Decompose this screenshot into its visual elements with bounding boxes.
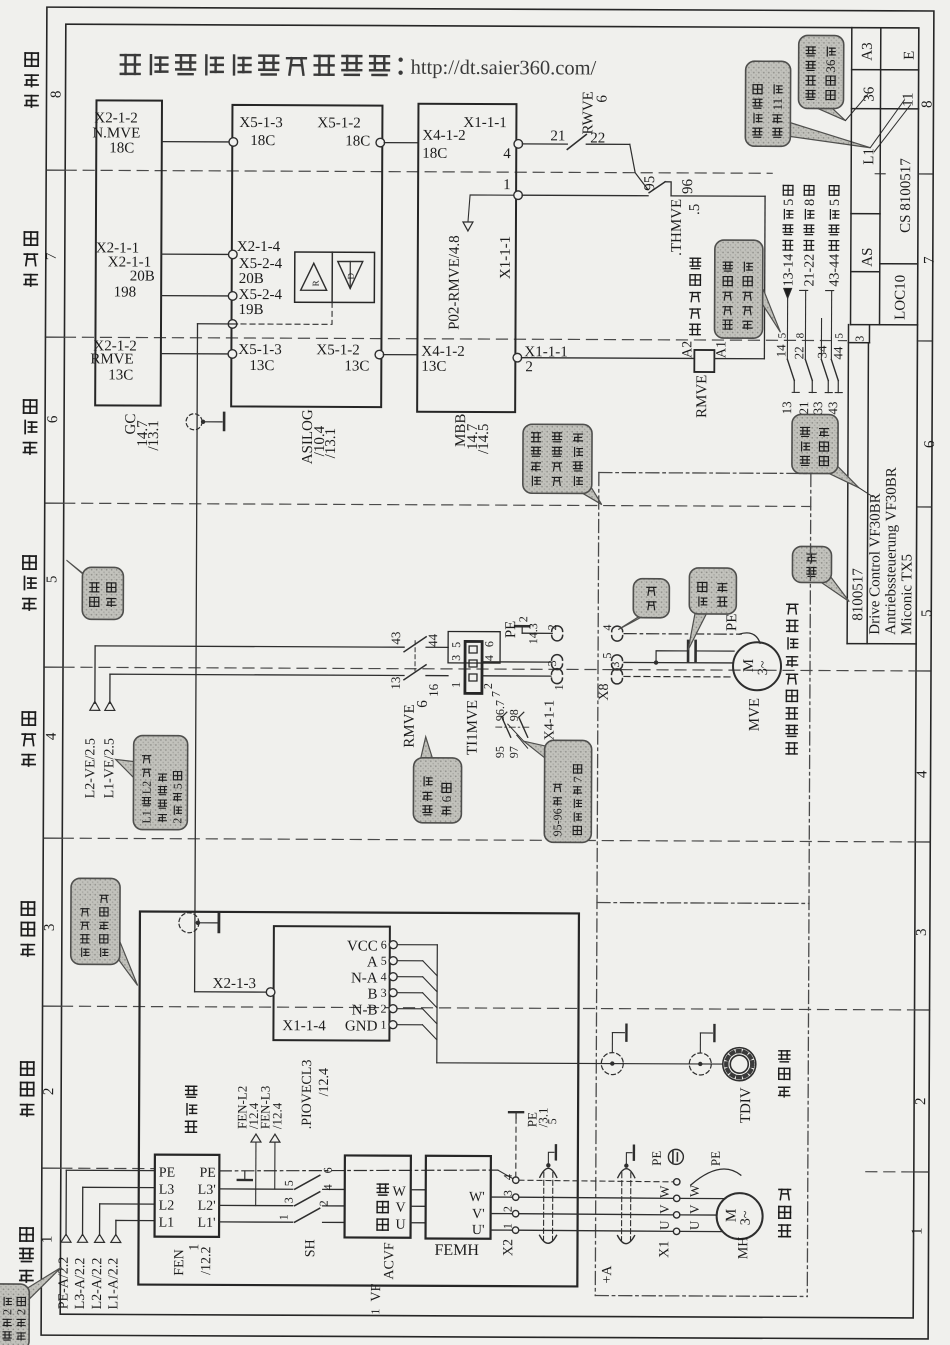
- svg-text:PE: PE: [503, 621, 519, 639]
- FEMH pin labels W' V' U': [469, 1190, 485, 1238]
- callout bubble 95-96常闭触点在第7区: [524, 741, 547, 759]
- MBB block reference label MBB 14.7 /14.5: [453, 414, 492, 455]
- ASILOG left pin circles: [228, 138, 238, 359]
- wire X2-1-1/X2-1-4: [161, 253, 228, 255]
- svg-text:LOC10: LOC10: [893, 275, 909, 320]
- svg-text:13C: 13C: [421, 359, 446, 375]
- shield clamp on encoder wire 1: [601, 1025, 626, 1075]
- control cabinet outline box: [138, 912, 579, 1287]
- svg-text:Drive Control VF30BR: Drive Control VF30BR: [867, 493, 884, 634]
- svg-text:X2-1-3: X2-1-3: [213, 976, 256, 992]
- svg-text:95: 95: [493, 746, 507, 758]
- leader lines to THMVE contacts: [508, 724, 528, 748]
- tap wire FEN-L3/12.4 with triangle: [257, 1086, 284, 1189]
- svg-text:6: 6: [381, 938, 387, 952]
- svg-text:21: 21: [550, 128, 565, 144]
- svg-text:13C: 13C: [344, 358, 369, 374]
- PIOVECL3 right pin circles and encoder bus wires: [389, 941, 438, 1063]
- label column 13-14位置在5区 with arrow: [781, 185, 797, 359]
- svg-text:4: 4: [501, 1174, 515, 1180]
- svg-text:X1-1-1: X1-1-1: [498, 236, 514, 279]
- ASILOG pin labels X5-1-3 18C X5-1-2 18C: [239, 115, 370, 150]
- svg-text:A1: A1: [714, 341, 729, 358]
- svg-text:5: 5: [833, 333, 845, 339]
- block GC (group control): [95, 100, 162, 405]
- callout bubble 点划线框内部件是在一起的: [578, 483, 602, 504]
- svg-text:1: 1: [368, 1309, 382, 1315]
- svg-text:6: 6: [45, 415, 61, 423]
- ACVF block reference label VF ACVF 1: [368, 1242, 397, 1315]
- svg-text:98: 98: [507, 709, 521, 721]
- callout bubble 启动电容: [688, 612, 706, 650]
- svg-text:2: 2: [481, 683, 495, 689]
- svg-text:2: 2: [516, 616, 530, 622]
- coil RMVE fan contactor A2-A1: [680, 341, 729, 418]
- wires FEMH to connector X2: [491, 1197, 513, 1230]
- wire 13C ASILOG to MBB: [383, 354, 417, 356]
- svg-text:L2': L2': [198, 1199, 216, 1214]
- label 电动机 motor: [779, 1224, 791, 1226]
- svg-text:RMVE: RMVE: [90, 351, 133, 367]
- svg-text:43: 43: [388, 632, 403, 645]
- svg-text:34: 34: [814, 345, 829, 359]
- GC pin net labels X2-1-1 X2-1-1 20B 198: [96, 240, 155, 300]
- svg-text:L1: L1: [159, 1216, 175, 1231]
- svg-text:M: M: [741, 659, 757, 672]
- block FEMH output filter: [426, 1156, 491, 1239]
- svg-text:21-22: 21-22: [802, 254, 817, 287]
- label column 21-22位置在8区: [799, 186, 818, 360]
- callout bubble 风机接触器的四对触点: [758, 290, 780, 332]
- label 编码器 encoder: [779, 1086, 790, 1088]
- wire THMVE 96 to corner and down to coil: [670, 196, 765, 359]
- svg-text:X5-1-2: X5-1-2: [316, 342, 359, 358]
- svg-text:19B: 19B: [239, 302, 264, 318]
- svg-text:U: U: [657, 1220, 672, 1230]
- motor MVE fan (M 3~): [733, 642, 781, 731]
- block ASILOG: [231, 105, 382, 407]
- svg-text:5: 5: [545, 1118, 559, 1124]
- svg-text:43-44: 43-44: [827, 254, 842, 287]
- svg-text:/14.5: /14.5: [476, 424, 492, 454]
- svg-text:X4-1-2: X4-1-2: [421, 344, 464, 360]
- plug contacts X8 (three pairs of arcs): [611, 626, 622, 684]
- svg-text:3: 3: [852, 336, 866, 342]
- connector X2 pin circles 4 3 2 1: [500, 1174, 519, 1256]
- block MBB (machine room board): [417, 104, 516, 412]
- svg-text:96: 96: [680, 178, 696, 194]
- wire 18C ASILOG to MBB: [384, 142, 418, 144]
- PE stub with ground at plug row: [503, 616, 552, 644]
- svg-text:X5-2-4: X5-2-4: [239, 256, 283, 272]
- svg-text:21: 21: [796, 401, 811, 414]
- label 曳引电动机冷却风机: [786, 742, 797, 744]
- PE dash-dot wire from FEN with ground: [219, 1169, 514, 1181]
- svg-text:1: 1: [380, 1018, 386, 1032]
- contacts THMVE 95-96 97-98 spare: [493, 700, 532, 758]
- svg-text:+A: +A: [600, 1265, 615, 1284]
- svg-text:4: 4: [915, 770, 931, 778]
- PIOVECL3 left pin circle X2-1-3: [266, 988, 275, 997]
- svg-text:5: 5: [600, 653, 614, 659]
- svg-text:N.MVE: N.MVE: [92, 125, 140, 141]
- gang dash between RMVE contacts: [414, 641, 416, 671]
- svg-text:14: 14: [773, 344, 788, 358]
- svg-text:L1-A/2.2: L1-A/2.2: [106, 1258, 121, 1310]
- svg-text:A: A: [367, 955, 378, 971]
- svg-text:6: 6: [415, 700, 431, 708]
- contact RMVE 13-16 in fan line: [388, 665, 448, 697]
- svg-text:7: 7: [44, 252, 60, 260]
- callout bubble 到第2页的第2区: [24, 1267, 61, 1298]
- svg-text:5: 5: [449, 642, 463, 648]
- PIOVECL3 pin numbers 6..1: [380, 938, 386, 1032]
- svg-text:8: 8: [48, 91, 64, 99]
- FEN pin labels PE L3 L2 L1 / PE L3' L2' L1': [159, 1166, 216, 1231]
- PIOVECL3 pin labels VCC A N-A B N-B GND X1-1-4: [282, 938, 378, 1034]
- svg-text:X2-1-2: X2-1-2: [94, 110, 137, 126]
- svg-text:SH: SH: [303, 1239, 318, 1257]
- contact RWVE 21-22 (normally open): [550, 91, 610, 150]
- svg-text:/13.1: /13.1: [323, 428, 339, 458]
- machine area dash-dot frame +A: [595, 473, 811, 1297]
- wires ACVF to FEMH: [411, 1190, 426, 1223]
- contactor RMVE auxiliary contact 13-14: [773, 332, 799, 414]
- svg-text:V: V: [687, 1204, 702, 1214]
- svg-text:X1: X1: [657, 1241, 672, 1258]
- svg-text:1: 1: [910, 1227, 926, 1235]
- svg-text:36: 36: [823, 59, 838, 73]
- svg-text:V: V: [396, 1201, 406, 1216]
- tap wire FEN-L2/12.4 with triangle: [234, 1086, 261, 1206]
- FEN block reference label FEN 1 /12.2: [172, 1244, 214, 1276]
- svg-text:W': W': [469, 1190, 485, 1205]
- svg-text:198: 198: [114, 284, 137, 300]
- svg-text:L1-VE/2.5: L1-VE/2.5: [102, 738, 117, 798]
- ACVF pin labels W V U: [392, 1185, 406, 1233]
- wire 18C GC to ASILOG: [162, 141, 229, 143]
- svg-text:3: 3: [282, 1197, 296, 1203]
- title block drawing number and name 8100517 Drive Control VF30BR: [847, 343, 917, 644]
- svg-text:/12.4: /12.4: [269, 1102, 284, 1129]
- svg-text:Miconic TX5: Miconic TX5: [899, 554, 915, 635]
- svg-text:3: 3: [501, 1190, 515, 1196]
- contact THMVE 95-96 thermal (normally closed): [642, 176, 703, 256]
- svg-text:6: 6: [594, 95, 610, 103]
- leader line to sheet count 36: [845, 95, 867, 121]
- svg-text:97: 97: [507, 746, 521, 758]
- svg-text:VF: VF: [369, 1283, 384, 1301]
- zone name labels 第八区..第一区 on left margin: [20, 53, 38, 1282]
- label 滤波器 filter: [186, 1120, 197, 1122]
- svg-text:1: 1: [449, 682, 463, 688]
- svg-text:RMVE: RMVE: [402, 704, 418, 747]
- svg-text:2: 2: [170, 818, 184, 824]
- svg-text:CS 8100517: CS 8100517: [898, 158, 914, 233]
- svg-text:2: 2: [380, 1002, 386, 1016]
- title block grid lines: [851, 28, 919, 325]
- svg-text:X5-2-4: X5-2-4: [239, 287, 283, 303]
- leader line to title text: [859, 488, 873, 497]
- svg-text:2: 2: [0, 1309, 14, 1315]
- svg-text:U: U: [395, 1218, 405, 1233]
- svg-text:ACVF: ACVF: [382, 1242, 397, 1280]
- callout bubble 线圈在第6区: [421, 737, 433, 759]
- svg-text:http://dt.saier360.com/: http://dt.saier360.com/: [411, 57, 597, 80]
- svg-text:36: 36: [861, 86, 877, 102]
- callout bubble 此页图纸是第11页: [789, 122, 870, 147]
- svg-text:A2: A2: [680, 341, 695, 358]
- callout bubble 方框表示在控制柜内: [112, 941, 138, 985]
- plug contacts X4-1-1 (three pairs of arcs): [551, 626, 562, 684]
- wire L1-VE with off-page triangle: [102, 674, 404, 800]
- svg-text:8: 8: [794, 332, 806, 338]
- callout bubble 此电梯图纸共36页: [815, 107, 845, 120]
- svg-text:/12.2: /12.2: [199, 1246, 214, 1274]
- svg-text:8: 8: [803, 199, 818, 206]
- svg-text:AS: AS: [860, 247, 876, 266]
- svg-text:U': U': [472, 1223, 485, 1238]
- contactor RMVE auxiliary contact 21-22: [791, 332, 816, 414]
- svg-text:U: U: [687, 1220, 702, 1230]
- svg-text:8100517: 8100517: [850, 568, 866, 621]
- svg-text:16: 16: [426, 683, 441, 697]
- wire from MBB pin4 to RWVE contact: [522, 143, 567, 145]
- svg-text:5: 5: [776, 332, 788, 338]
- incoming mains wires PE-A L3-A L2-A L1-A with triangles: [57, 1170, 155, 1309]
- PE arc onto motor frame: [739, 633, 760, 643]
- svg-text:/12.4: /12.4: [317, 1068, 332, 1096]
- svg-text:18C: 18C: [109, 140, 134, 156]
- watermark 本资料来自赛尔电梯网 http://dt.saier360.com/: [121, 55, 597, 79]
- GC pin net labels X2-1-2 N.MVE 18C: [92, 110, 140, 156]
- wire 13C GC to ASILOG: [161, 353, 228, 355]
- contactor RMVE auxiliary contact 43-44: [825, 333, 845, 415]
- svg-text:2: 2: [501, 1206, 515, 1212]
- svg-text:2: 2: [913, 1097, 929, 1105]
- svg-text:6: 6: [321, 1167, 335, 1173]
- ASILOG block reference label ASILOG /10.4 /13.1: [300, 409, 339, 464]
- zone boundary dashed separation lines: [61, 170, 918, 1172]
- svg-text:20B: 20B: [239, 271, 264, 287]
- ASILOG right pin circles: [375, 138, 385, 359]
- svg-text:2: 2: [317, 1200, 331, 1206]
- callout bubble 此页图纸名称: [823, 463, 859, 488]
- svg-text:W: W: [392, 1185, 406, 1200]
- wire coil A1 to corner: [714, 358, 764, 360]
- svg-text:3: 3: [545, 660, 559, 666]
- svg-text:MVE: MVE: [747, 698, 763, 731]
- svg-text:18C: 18C: [250, 133, 275, 149]
- svg-text:L2-A/2.2: L2-A/2.2: [90, 1258, 105, 1310]
- MBB labels X4-1-2 13C bottom: [421, 344, 464, 375]
- svg-text:6: 6: [439, 795, 454, 802]
- svg-text:RMVE: RMVE: [694, 375, 710, 418]
- svg-text:A3: A3: [860, 42, 876, 60]
- svg-text:5: 5: [282, 1180, 296, 1186]
- svg-text:X5-1-3: X5-1-3: [239, 115, 282, 131]
- svg-text:13: 13: [779, 401, 794, 414]
- svg-text:2: 2: [41, 1088, 57, 1096]
- wire from MBB pin1 to THMVE contact 95: [522, 194, 648, 197]
- svg-text:3~: 3~: [756, 660, 771, 675]
- shielded cable symbol 2 with ground: [618, 1146, 635, 1244]
- svg-text:5: 5: [171, 783, 185, 789]
- svg-text:MH: MH: [736, 1237, 751, 1260]
- svg-text:N-A: N-A: [351, 970, 378, 986]
- svg-text:18C: 18C: [422, 146, 447, 162]
- block reference label PIOVECL3 /12.4: [300, 1060, 332, 1130]
- svg-text:8: 8: [919, 100, 935, 108]
- svg-text:1: 1: [501, 1223, 515, 1229]
- connector TI1MVE outer shell: [448, 631, 500, 663]
- svg-text:N-B: N-B: [352, 1002, 378, 1018]
- title block small cell 3: [847, 325, 869, 644]
- svg-text:L1': L1': [197, 1216, 215, 1231]
- svg-text:L2-VE/2.5: L2-VE/2.5: [83, 738, 98, 798]
- svg-text:3: 3: [449, 655, 463, 661]
- start capacitor: [656, 641, 734, 663]
- svg-text:V': V': [472, 1207, 485, 1222]
- svg-text:96.7: 96.7: [493, 700, 507, 721]
- PE earth symbol in circle at X1: [649, 1149, 684, 1166]
- svg-text:44: 44: [830, 346, 845, 360]
- svg-text:P02-RMVE/4.8: P02-RMVE/4.8: [446, 235, 462, 330]
- wires FEN outputs to SH switch: [219, 1189, 293, 1222]
- block ACVF frequency inverter: [345, 1155, 411, 1237]
- contact RMVE 43-44 in fan line: [388, 632, 448, 652]
- zone tick on title block border: [875, 173, 885, 175]
- block PIOVECL3: [273, 926, 389, 1041]
- svg-text:X8: X8: [597, 683, 612, 700]
- svg-text:FEN: FEN: [172, 1249, 187, 1276]
- wire RWVE to THMVE diagonal: [586, 144, 648, 190]
- ASILOG pin labels X2-1-4 X5-2-4 20B X5-2-4 19B: [237, 239, 283, 318]
- svg-text:PE: PE: [708, 1151, 723, 1166]
- wire labels X1-1-1 2 after MBB pin2: [524, 344, 567, 375]
- svg-text:.THMVE: .THMVE: [669, 199, 685, 256]
- svg-text:E: E: [902, 51, 918, 60]
- svg-text:Antriebssteuerung VF30BR: Antriebssteuerung VF30BR: [883, 467, 900, 635]
- label 变频器 inverter: [377, 1218, 388, 1220]
- svg-text:X1-1-4: X1-1-4: [282, 1018, 326, 1034]
- svg-text:VCC: VCC: [347, 938, 378, 954]
- wire from ASILOG pin 19B down to PIOVECL3 X2-1-3: [195, 324, 270, 992]
- svg-text:5: 5: [919, 609, 935, 617]
- svg-text:W: W: [687, 1184, 702, 1197]
- svg-text:4: 4: [503, 146, 511, 162]
- svg-text:33: 33: [810, 401, 825, 414]
- svg-text:4: 4: [381, 970, 387, 984]
- svg-text:W: W: [657, 1185, 672, 1198]
- fan motor phase wire: [624, 660, 733, 665]
- ASILOG internal converter sub-box with R and D triangle symbols: [295, 252, 375, 303]
- svg-text:X4-1-2: X4-1-2: [422, 128, 465, 144]
- svg-text:3: 3: [914, 928, 930, 936]
- label 风机接触器 fan contactor: [690, 323, 700, 325]
- svg-text:PE: PE: [199, 1166, 215, 1181]
- svg-text:X5-1-3: X5-1-3: [238, 342, 281, 358]
- svg-text:L3: L3: [159, 1183, 175, 1198]
- svg-text:1: 1: [503, 177, 511, 193]
- GC pin net labels X2-1-2 RMVE 13C: [90, 338, 137, 383]
- svg-text:L3-A/2.2: L3-A/2.2: [73, 1258, 88, 1310]
- svg-text:18C: 18C: [345, 133, 370, 149]
- svg-text:2: 2: [545, 624, 559, 630]
- svg-text:95: 95: [642, 176, 658, 191]
- svg-text:L1: L1: [861, 148, 877, 165]
- svg-text:7: 7: [489, 691, 503, 697]
- svg-text:2: 2: [14, 1309, 28, 1315]
- PE dashed wire X2 to X1: [519, 1180, 674, 1182]
- svg-text:6: 6: [482, 641, 496, 647]
- svg-text:X4-1-1: X4-1-1: [543, 700, 558, 741]
- svg-text:5: 5: [782, 199, 797, 206]
- svg-text:14.3: 14.3: [526, 623, 540, 644]
- contactor RMVE auxiliary contact 33-34: [810, 318, 832, 414]
- svg-text:6: 6: [922, 440, 938, 448]
- svg-text:PE-A/2.2: PE-A/2.2: [57, 1257, 72, 1310]
- TI1MVE pin numbers 5 3 6 4 1 2 7: [449, 641, 503, 697]
- ground clamp on wire (dashed circle) upper: [186, 413, 224, 430]
- fan motor dashed return wire: [624, 675, 734, 677]
- wires X1 to motor MH terminals: [680, 1184, 725, 1232]
- svg-text:1: 1: [277, 1214, 291, 1220]
- MBB internal stub P02-RMVE/4.8 with reference triangle: [446, 195, 516, 330]
- callout bubble 区位号码: [66, 560, 95, 583]
- svg-text:TI1MVE: TI1MVE: [465, 700, 481, 755]
- svg-text:2: 2: [525, 359, 533, 375]
- svg-text:4: 4: [44, 732, 60, 740]
- PE wire curve onto motor frame: [691, 1151, 741, 1185]
- svg-text:11: 11: [900, 92, 916, 107]
- svg-text:5: 5: [381, 954, 387, 968]
- svg-text:PE: PE: [724, 614, 740, 632]
- zone numbers 8..1 right margin: [910, 100, 940, 1235]
- ASILOG pin labels X5-1-3 13C X5-1-2 13C: [238, 342, 369, 375]
- svg-text:13-14: 13-14: [781, 254, 796, 287]
- shield clamp on encoder wire 2: [689, 1025, 714, 1075]
- plug pin labels 4 5 3 X8: [597, 625, 622, 701]
- phase wires X2 to X1 through shielded cables: [519, 1197, 674, 1231]
- svg-text:22: 22: [791, 346, 806, 359]
- motor MH main hoisting motor (M 3~): [716, 1193, 762, 1259]
- MBB labels X1-1-1 X4-1-2 18C pin4 pin1: [422, 115, 511, 193]
- GC block reference label GC 14.7/13.1: [123, 414, 162, 451]
- svg-text:PE: PE: [159, 1166, 175, 1181]
- svg-text:11: 11: [770, 98, 785, 111]
- svg-text:3: 3: [42, 924, 58, 932]
- plug pin labels 2 3: [545, 624, 559, 666]
- svg-text:3: 3: [608, 662, 622, 668]
- svg-text:7: 7: [922, 256, 938, 264]
- svg-text:7: 7: [571, 776, 585, 782]
- shielded cable symbol 1 with ground: [540, 1145, 557, 1243]
- callout bubble L1L2两根大线到第2页的5区: [116, 759, 134, 777]
- encoder signal wire to TDIV: [437, 1063, 722, 1064]
- svg-text:.5: .5: [687, 204, 703, 215]
- svg-text:L1: L1: [139, 810, 153, 823]
- svg-text:L3': L3': [198, 1183, 216, 1198]
- svg-text:13: 13: [388, 677, 403, 690]
- svg-text:TDIV: TDIV: [738, 1087, 754, 1123]
- label RMVE 6 (coil in zone 6): [402, 700, 431, 748]
- svg-text:FEMH: FEMH: [434, 1242, 479, 1259]
- svg-text:4: 4: [482, 655, 496, 661]
- svg-text:X1-1-1: X1-1-1: [463, 115, 506, 131]
- main switch SH three poles: [276, 1167, 344, 1257]
- connector TI1MVE mating part (thick): [465, 641, 482, 693]
